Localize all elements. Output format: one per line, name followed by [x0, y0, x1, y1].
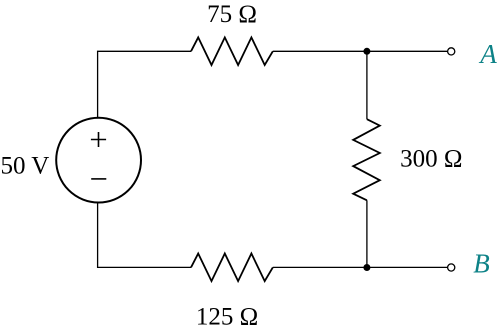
wire right vertical upper (top node to R2) — [366, 51, 368, 119]
wire top-left horizontal (source top to R1) — [98, 51, 191, 118]
svg-text:A: A — [478, 39, 497, 69]
node junction bottom — [363, 264, 370, 271]
plus sign of source — [91, 132, 106, 147]
minus sign of source — [91, 178, 106, 180]
svg-text:300 Ω: 300 Ω — [400, 145, 462, 172]
resistor R1 75 ohm (top) — [191, 37, 273, 65]
wire bottom-left (source bottom to R3) — [98, 202, 191, 267]
resistor R3 125 ohm (bottom) — [191, 254, 273, 282]
voltage source V1 50 V — [56, 118, 141, 203]
svg-text:50 V: 50 V — [0, 153, 49, 180]
terminal A open circle — [448, 48, 455, 55]
svg-text:B: B — [473, 249, 490, 279]
terminal B open circle — [448, 264, 455, 271]
wire bottom-right (R3 to node B junction and on to terminal B) — [273, 266, 448, 268]
svg-text:125 Ω: 125 Ω — [196, 304, 258, 331]
node junction top — [363, 48, 370, 55]
resistor R2 300 ohm (right vertical) — [353, 119, 380, 200]
wire right vertical lower (R2 to bottom node) — [366, 200, 368, 267]
svg-text:75 Ω: 75 Ω — [207, 1, 257, 28]
wire top-right (R1 to node A junction and on to terminal A) — [273, 50, 448, 52]
